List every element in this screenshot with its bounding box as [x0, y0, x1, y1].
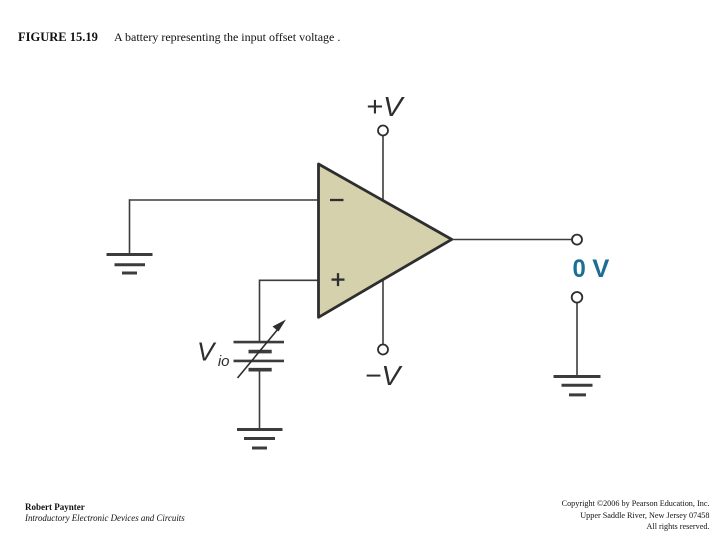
op-amp U1 inverting pin mark (-): [330, 199, 344, 201]
wire: battery top lead: [259, 280, 261, 343]
credit: book title: [25, 513, 185, 523]
credit: author: [25, 502, 85, 512]
svg-text:Vio: Vio: [197, 337, 230, 371]
terminal: +V (open circle): [378, 126, 388, 136]
wire: output: [452, 239, 572, 241]
terminal: 0V reference (open circle): [572, 292, 583, 303]
battery Vio (plates): [234, 342, 285, 370]
figure title: [18, 30, 98, 45]
wire: battery bottom to ground: [259, 370, 261, 429]
svg-text:V: V: [592, 255, 609, 283]
op-amp U1 noninverting pin mark (+): [332, 273, 345, 286]
battery variable arrow: [238, 320, 287, 379]
svg-text:0: 0: [573, 255, 586, 283]
wire: +V/-V supply vertical: [382, 136, 384, 344]
op-amp U1 (triangle): [319, 164, 452, 317]
figure caption: [114, 30, 340, 45]
copyright block: [562, 498, 710, 533]
ground GND1 (left, inverting input): [107, 255, 153, 274]
terminal: -V (open circle): [378, 345, 388, 355]
svg-text:−V: −V: [365, 360, 403, 391]
wire: left ground drop: [129, 199, 131, 254]
ground GND3 (right, reference): [554, 377, 601, 395]
terminal: output (open circle): [572, 235, 582, 245]
wire: reference terminal to ground: [576, 303, 578, 376]
wire: inverting input (y=200): [130, 199, 319, 201]
ground GND2 (below battery): [237, 430, 283, 449]
wire: noninverting input (y=280): [260, 279, 319, 281]
svg-text:+V: +V: [366, 91, 405, 122]
